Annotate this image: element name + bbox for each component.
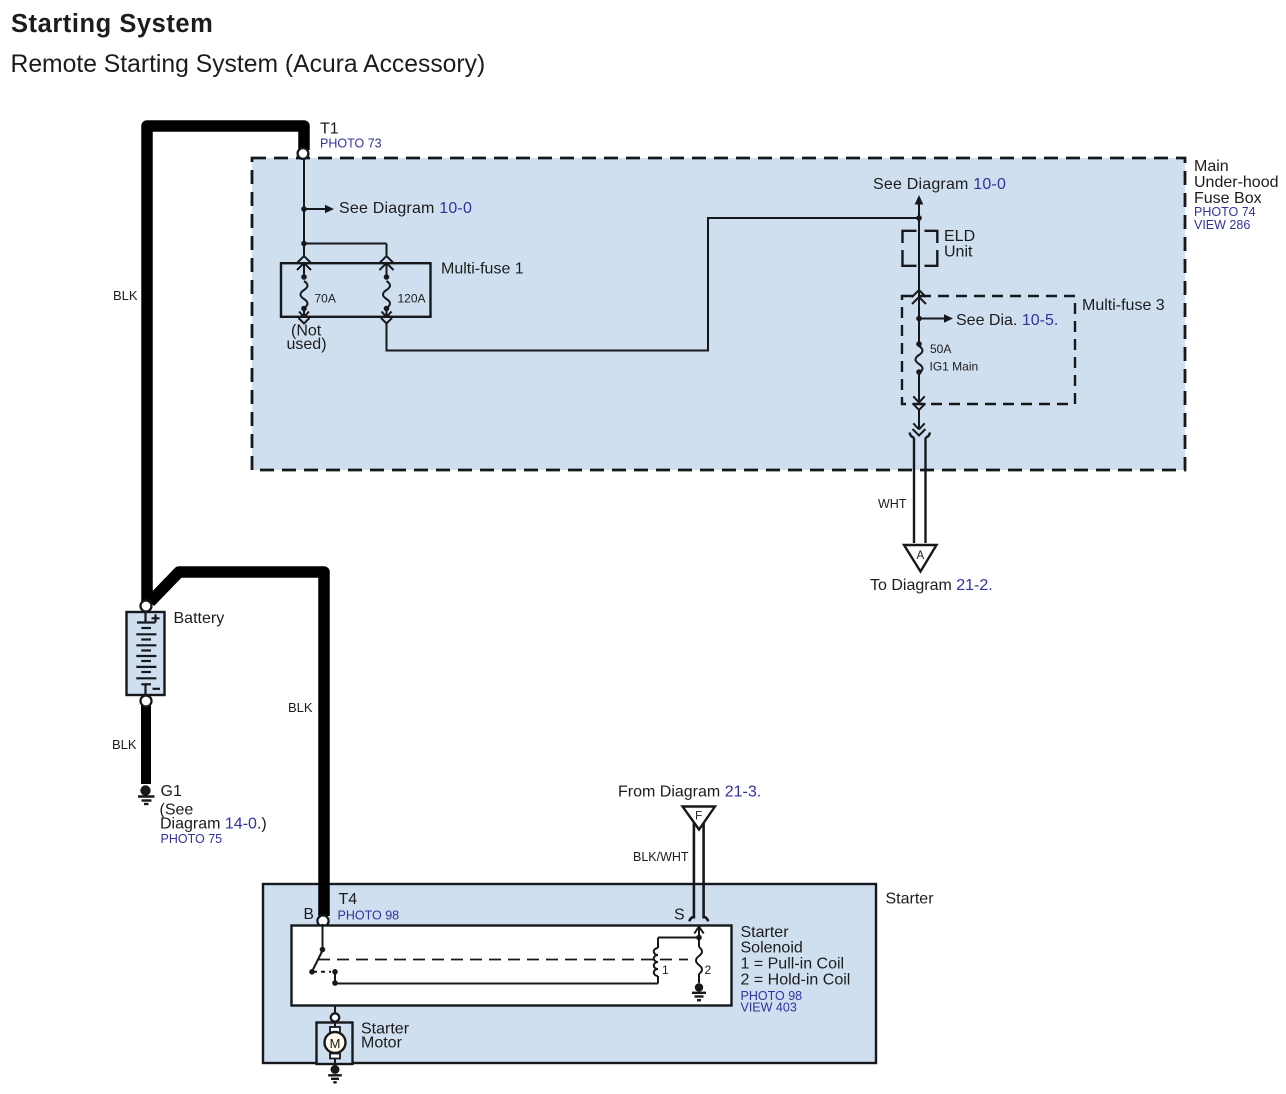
svg-text:G1: G1 — [161, 783, 182, 800]
svg-text:used): used) — [287, 336, 327, 353]
svg-text:See Diagram 10-0: See Diagram 10-0 — [339, 200, 472, 217]
svg-text:2: 2 — [705, 963, 712, 977]
svg-text:PHOTO 98: PHOTO 98 — [338, 909, 400, 923]
svg-text:Multi-fuse 3: Multi-fuse 3 — [1082, 297, 1165, 314]
svg-text:See Dia. 10-5.: See Dia. 10-5. — [956, 312, 1058, 329]
svg-text:Under-hood: Under-hood — [1194, 174, 1279, 191]
svg-text:Starter: Starter — [741, 924, 790, 941]
svg-text:BLK: BLK — [113, 288, 138, 303]
svg-text:Diagram 14-0.): Diagram 14-0.) — [160, 816, 267, 833]
svg-text:BLK: BLK — [112, 737, 137, 752]
svg-text:BLK/WHT: BLK/WHT — [633, 850, 689, 864]
svg-text:VIEW 403: VIEW 403 — [741, 1001, 797, 1015]
svg-text:IG1 Main: IG1 Main — [930, 360, 979, 374]
svg-text:From Diagram 21-3.: From Diagram 21-3. — [618, 784, 761, 801]
svg-text:ELD: ELD — [944, 228, 975, 245]
svg-text:Main: Main — [1194, 158, 1229, 175]
svg-text:70A: 70A — [315, 292, 336, 306]
svg-text:Motor: Motor — [361, 1035, 403, 1052]
svg-text:T1: T1 — [320, 121, 339, 138]
svg-text:VIEW 286: VIEW 286 — [1194, 218, 1250, 232]
svg-text:Solenoid: Solenoid — [741, 940, 803, 957]
svg-text:Multi-fuse 1: Multi-fuse 1 — [441, 261, 524, 278]
svg-text:50A: 50A — [930, 342, 951, 356]
svg-text:Starting System: Starting System — [11, 10, 213, 38]
svg-text:WHT: WHT — [878, 497, 907, 511]
svg-text:S: S — [674, 907, 685, 924]
svg-text:PHOTO 74: PHOTO 74 — [1194, 205, 1256, 219]
svg-text:A: A — [916, 550, 924, 562]
svg-text:2 = Hold-in Coil: 2 = Hold-in Coil — [741, 972, 851, 989]
svg-text:See Diagram 10-0: See Diagram 10-0 — [873, 176, 1006, 193]
svg-text:Remote Starting System (Acura: Remote Starting System (Acura Accessory) — [11, 51, 486, 78]
svg-text:PHOTO 75: PHOTO 75 — [161, 832, 223, 846]
svg-text:120A: 120A — [398, 292, 426, 306]
svg-text:F: F — [695, 811, 702, 823]
svg-text:Battery: Battery — [174, 610, 225, 627]
svg-text:B: B — [304, 906, 314, 923]
svg-text:1 = Pull-in Coil: 1 = Pull-in Coil — [741, 956, 845, 973]
svg-text:1: 1 — [662, 963, 669, 977]
svg-text:Unit: Unit — [944, 244, 973, 261]
svg-text:BLK: BLK — [288, 700, 313, 715]
svg-text:T4: T4 — [339, 891, 358, 908]
svg-text:PHOTO 73: PHOTO 73 — [320, 137, 382, 151]
svg-text:M: M — [330, 1036, 341, 1051]
svg-text:Starter: Starter — [886, 891, 935, 908]
svg-text:To Diagram 21-2.: To Diagram 21-2. — [870, 577, 993, 594]
